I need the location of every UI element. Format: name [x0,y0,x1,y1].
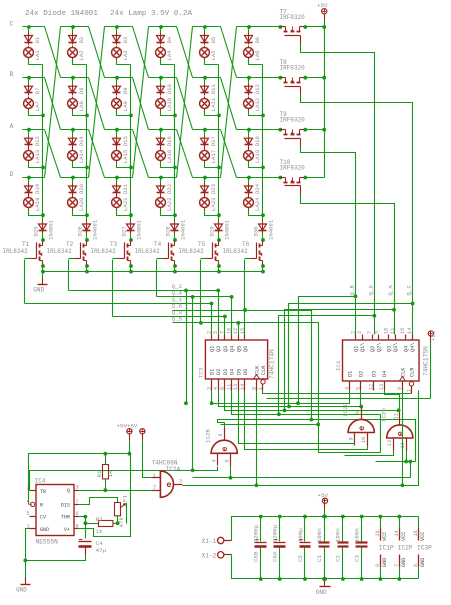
svg-text:24x Lamp 3.5V 0.2A: 24x Lamp 3.5V 0.2A [110,10,192,18]
junction row C col5 [203,25,207,29]
svg-text:C6A: C6A [272,551,279,562]
IC4 NE555N timer [36,485,74,536]
svg-text:D21: D21 [122,183,129,194]
diode D7 [25,86,33,92]
wire row segment D col4 [149,177,177,179]
svg-text:Q4\: Q4\ [410,343,416,352]
svg-text:NE555N: NE555N [36,539,59,546]
wire column 4 vertical [174,65,176,222]
svg-text:8: 8 [76,523,79,529]
diode D13 [25,138,33,144]
svg-text:15: 15 [400,328,406,334]
diode D28 [171,224,179,230]
svg-text:IRL6342: IRL6342 [179,248,205,255]
junction row B col4 [159,76,163,80]
svg-text:LA14: LA14 [78,149,85,163]
wire long diagonal D->C gap3 [133,27,149,178]
svg-text:D8: D8 [78,87,85,94]
svg-text:+5V: +5V [317,2,328,9]
svg-text:LA21: LA21 [122,197,129,211]
junction row C col4 [159,25,163,29]
lamp LA7 [24,99,34,109]
svg-text:IC4: IC4 [35,477,46,484]
svg-text:T1: T1 [22,241,30,248]
IC1 pin D2 (5) [360,381,362,391]
svg-text:IC2B: IC2B [204,429,211,443]
wire row segment C col2 [61,26,89,28]
svg-text:VCC: VCC [420,532,426,541]
lamp LA2 [68,48,78,58]
svg-text:Q2: Q2 [216,346,222,352]
junction column 2 row B [85,114,89,118]
svg-text:C5: C5 [297,555,304,562]
IC3 pin D1 [211,379,213,391]
wire V+ to +5V via bottom [79,454,131,537]
diode D30 [259,224,267,230]
svg-text:e: e [166,480,171,490]
svg-text:LA7: LA7 [34,101,41,111]
IC3 pin CLK (9) [256,379,258,391]
diode D21 [113,186,121,192]
svg-text:D18: D18 [254,136,261,146]
junction row B col5 [203,76,207,80]
svg-text:VCC: VCC [401,532,407,541]
svg-text:IC3: IC3 [198,367,205,378]
wire bus Q_5 [173,322,239,324]
svg-text:IC2A: IC2A [166,466,181,473]
wire column 3 vertical [130,65,132,222]
wire row segment C col6 [237,26,281,28]
wire lamp LA12 to column 6 [249,111,263,116]
transistor T3 (IRL6342 N-MOSFET) [130,241,132,246]
transistor T7 (IRF9320 P-MOSFET) [281,26,286,28]
IC1 pin Q2\ (6) [378,335,380,341]
svg-text:3: 3 [76,485,79,491]
wire bus Q_5 extension to gap vertical [221,323,319,425]
diode D24 [245,186,253,192]
wire diagonal B->A gap4 [177,78,193,130]
junction T4 drain [173,238,177,242]
wire IC2B input5 net line [193,477,411,479]
junction row B col6 [247,76,251,80]
capacitor C1 100n (ceramic) [324,517,326,543]
svg-text:CLR: CLR [410,368,416,377]
power symbol IC3P VCC/GND [418,517,420,529]
wire lamp LA8 to column 2 [73,111,87,116]
wire diagonal A->D gap1 [45,130,61,178]
svg-text:3: 3 [357,331,363,334]
svg-text:IRL6342: IRL6342 [135,248,161,255]
wire bus Q_1 to IC3 pin [211,304,213,335]
svg-text:A: A [10,123,14,130]
wire feedback tap to IC3 D2 (from Q_C) [219,304,413,407]
wire row segment B col5 [193,77,221,79]
wire T2 gate drop to bus Q_2 [68,260,70,291]
junction T3 drain [129,238,133,242]
capacitor C4 47u [79,541,92,543]
wire row segment B col1 [23,77,45,79]
wire D26 to T2 drain [86,234,88,241]
IC3 pin D4 [231,379,233,391]
svg-text:1N4001: 1N4001 [136,219,143,240]
junction T10 source to +5V rail [303,176,307,180]
wire GND stub (cap row) [324,579,326,583]
wire bus Q_3 [113,316,225,318]
junction row D col3 [115,176,119,180]
resistor R1 leads [105,454,107,465]
transistor T1 (IRL6342 N-MOSFET) [42,241,44,246]
wire 555 GND pin to GND [26,529,30,584]
wire D30 to T6 drain [262,234,264,241]
svg-text:D20: D20 [78,183,85,194]
wire T1 source to GND rail [42,267,44,272]
svg-text:LA5: LA5 [210,50,217,60]
IC3 pin Q1 [211,335,213,341]
junction column 3 row B [129,114,133,118]
lamp LA17 [200,151,210,161]
wire 555 V+ rail [29,454,130,505]
junction row C col3 [115,25,119,29]
wire row segment B col4 [149,77,177,79]
IC4 pin Q (3) [75,490,79,492]
wire column 1 vertical [42,65,44,222]
svg-text:100n: 100n [316,528,323,542]
IC1 pin Q1 (2) [355,335,357,341]
wire row segment A col4 [149,129,177,131]
junction T2 source [85,264,89,268]
junction row D col1 [27,176,31,180]
wire lamp LA4 to column 4 [161,60,175,65]
wire T6 source to GND rail [262,267,264,272]
svg-text:LA20: LA20 [78,197,85,211]
svg-text:IRF9320: IRF9320 [280,165,306,172]
wire hook from pin5 line up [410,462,412,478]
diode D26 [83,224,91,230]
svg-text:Q1: Q1 [354,346,360,352]
wire bus Q_2 [69,290,219,292]
resistor R2 1k [99,521,113,527]
svg-text:LA19: LA19 [34,198,41,211]
wire T3 source to GND rail [130,267,132,272]
XOR gate IC2A (74HC86) [160,471,173,497]
junction column 3 row A [129,166,133,170]
wire 555 TR loop [30,471,193,491]
svg-text:LA16: LA16 [166,150,173,163]
junction column 6 row B [261,114,265,118]
svg-text:12: 12 [387,440,393,446]
wire lamp LA17 to column 5 [205,163,219,168]
junction row A col2 [71,128,75,132]
wire diagonal C->B gap5 [221,27,237,78]
svg-text:5: 5 [355,387,361,390]
junction T3 source [129,264,133,268]
wire P1 wiper tie [126,504,127,524]
wire tap to 380.3 vertical [319,425,381,453]
svg-text:1: 1 [153,473,156,479]
svg-text:D3: D3 [372,371,378,377]
IC1 pin Q4 (15) [405,335,407,341]
junction row D col5 [203,176,207,180]
transistor T10 (IRF9320 P-MOSFET) [281,177,286,179]
svg-text:D27: D27 [121,226,128,236]
junction row A col3 [115,128,119,132]
transistor T6 (IRL6342 N-MOSFET) [262,241,264,246]
diode D4 [157,36,165,42]
wire lamp LA22 to column 4 [161,210,175,216]
wire GND rail under T1..T6 [43,271,263,273]
svg-text:1N4001: 1N4001 [92,219,99,240]
junction column 1 row B [41,114,45,118]
svg-text:D2: D2 [78,37,85,44]
junction T9 source to +5V rail [303,128,307,132]
ground GND (driver rail) [42,278,44,285]
svg-text:Q_C: Q_C [406,285,413,296]
lamp LA4 [156,48,166,58]
svg-text:IC2D: IC2D [381,408,388,422]
svg-text:CV: CV [40,515,47,521]
svg-text:Q1\: Q1\ [360,343,366,352]
svg-text:13: 13 [233,384,239,390]
svg-text:6: 6 [218,433,224,436]
junction T4 source [173,264,177,268]
wire feedback tap to IC3 D3 (from Q_A) [225,310,395,411]
svg-text:8: 8 [413,564,419,567]
svg-text:LA22: LA22 [166,198,173,211]
svg-text:1k: 1k [107,470,114,477]
svg-text:D16: D16 [166,136,173,146]
wire diagonal B->A gap5 [221,78,237,130]
svg-text:100n: 100n [354,528,361,542]
wire feedback tap to IC3 D4 (from Q_D) [232,316,375,415]
wire lamp LA16 to column 4 [161,163,175,168]
capacitor C6A 2200µ (electrolytic) [279,517,281,542]
junction T5 source [217,264,221,268]
IC4 pin V+ (8) [75,528,79,530]
svg-text:14: 14 [394,530,400,536]
wire GND rail (cap row bottom) [232,555,419,579]
power symbol IC1P VCC/GND [380,517,382,529]
svg-text:D6: D6 [254,37,261,44]
svg-text:LA23: LA23 [210,198,217,211]
diode D22 [157,186,165,192]
svg-text:LA15: LA15 [122,150,129,163]
junction row D col4 [159,176,163,180]
IC3 pin D5 [238,379,240,391]
diode D15 [113,138,121,144]
wire diagonal C->B gap1 [45,27,61,78]
wire CLR net (+5V) IC3/IC1 [263,391,412,394]
svg-text:GND: GND [382,558,388,567]
svg-text:IRL6342: IRL6342 [3,248,29,255]
svg-text:LA24: LA24 [254,197,261,211]
svg-text:2: 2 [350,331,356,334]
svg-text:R: R [40,502,43,508]
XOR gate IC2B (74HC86) [211,440,237,453]
diode D9 [113,86,121,92]
svg-text:GND: GND [316,589,327,596]
wire +5V rail (right) [324,21,326,178]
wire long diagonal D->C gap2 [89,27,105,178]
junction row C col6 [247,25,251,29]
IC3 pin Q5 [238,335,240,341]
svg-text:D6: D6 [243,369,249,375]
IC4 pin DIS (7) [75,504,79,506]
svg-text:CLK: CLK [255,365,261,375]
wire DIS to P1 top [79,498,118,505]
wire row segment C col5 [193,26,221,28]
wire THR/C4 vertical [85,517,87,539]
wire bus Q_5 to IC3 pin [238,323,240,335]
junction column 6 row A [261,166,265,170]
junction T10 drain [278,176,282,180]
wire THR node [79,516,86,518]
wire diagonal B->A gap2 [89,78,105,130]
svg-text:T6: T6 [242,241,250,248]
svg-text:IRF9320: IRF9320 [280,14,306,21]
wire clock net 555->gates->CLK pins [183,391,419,486]
svg-text:D1: D1 [210,369,216,375]
wire tap line down right [312,420,416,462]
IC4 pin THR (6) [75,516,79,518]
lamp LA9 [112,99,122,109]
wire row segment B col3 [105,77,133,79]
wire row segment A col2 [61,129,89,131]
XOR gate IC2D (74HC86) [387,425,413,438]
svg-text:Q3: Q3 [387,346,393,352]
diode D5 [201,36,209,42]
wire diagonal C->B gap2 [89,27,105,78]
supply +5V (IC1 CLR) symbol [428,331,433,336]
junction T7 source to +5V rail [303,25,307,29]
svg-text:11: 11 [226,384,232,390]
diode D16 [157,138,165,144]
wire lamp LA7 to column 1 [29,111,43,116]
wire row segment D col5 [193,177,221,179]
IC4 pin CV (5) [30,516,37,518]
diode D10 [157,86,165,92]
IC1 pin D1 (4) [349,381,351,391]
diode D14 [69,138,77,144]
wire row segment B col6 [237,77,281,79]
wire column 5 vertical [218,65,220,222]
IC3 pin Q2 [218,335,220,341]
svg-text:C3: C3 [354,555,361,562]
svg-text:D10: D10 [166,83,173,94]
svg-text:D29: D29 [209,226,216,236]
wire T4 source to GND rail [174,267,176,272]
wire diagonal B->A gap1 [45,78,61,130]
supply +5V (cap row) symbol [322,498,327,503]
svg-text:1N4001: 1N4001 [224,219,231,240]
wire T7 gate to Q net [301,44,375,335]
svg-text:100µ: 100µ [297,528,304,542]
svg-text:Q_B: Q_B [349,285,356,296]
svg-text:D11: D11 [210,83,217,94]
svg-text:5: 5 [224,459,230,462]
svg-text:D2: D2 [359,371,365,377]
svg-text:4: 4 [344,387,350,390]
svg-text:Q5: Q5 [236,346,242,352]
junction T2 drain [85,238,89,242]
wire row segment A col5 [193,129,221,131]
IC1 74HC175N quad D-flipflop [343,340,420,381]
wire +5V2 to IC2A input 1 [143,441,152,478]
svg-text:T3: T3 [110,241,118,248]
lamp LA24 [244,198,254,208]
svg-text:D1: D1 [34,36,41,43]
wire lamp LA5 to column 5 [205,60,219,65]
svg-text:9: 9 [397,387,403,390]
svg-text:6: 6 [374,331,380,334]
IC1 pin CLK (9) [402,381,404,391]
svg-text:Q_6: Q_6 [172,303,183,310]
lamp LA21 [112,198,122,208]
svg-text:74HC174N: 74HC174N [269,349,276,379]
wire diagonal C->B gap3 [133,27,149,78]
svg-text:GND: GND [16,587,27,594]
svg-text:D2: D2 [216,369,222,375]
IC4 pin TR (2) [30,490,37,492]
junction row B col2 [71,76,75,80]
svg-text:Q2\: Q2\ [377,343,383,352]
junction T5 drain [217,238,221,242]
wire to IC2D input 13 [376,461,416,463]
lamp LA8 [68,99,78,109]
svg-text:IRL6342: IRL6342 [47,248,73,255]
svg-text:V+: V+ [64,527,70,533]
svg-text:8: 8 [355,411,361,414]
svg-text:T4: T4 [154,241,162,248]
junction column 3 row D [129,213,133,217]
wire diagonal A->D gap3 [133,130,149,178]
wire diagonal B->A gap3 [133,78,149,130]
svg-text:IC3P: IC3P [417,545,432,552]
svg-text:DIS: DIS [61,502,70,508]
junction column 6 row D [261,213,265,217]
junction row A col5 [203,128,207,132]
wire IC2C output (8) to IC1 D2 [361,391,362,407]
wire diagonal A->D gap4 [177,130,193,178]
svg-text:Q_4: Q_4 [172,290,183,297]
svg-text:2: 2 [206,331,212,334]
svg-text:5: 5 [213,331,219,334]
wire row segment C col1 [23,26,45,28]
lamp LA22 [156,198,166,208]
transistor T9 (IRF9320 P-MOSFET) [281,129,286,131]
wire lamp LA14 to column 2 [73,163,87,168]
wire bus Q_6 to IC3 pin [244,311,246,335]
svg-text:1k: 1k [96,528,103,535]
wire bus Q_2 to IC3 pin [218,291,220,335]
svg-text:16: 16 [413,530,419,536]
svg-text:LA3: LA3 [122,50,129,60]
diode D2 [69,36,77,42]
svg-text:LA6: LA6 [254,50,261,60]
svg-text:LA4: LA4 [166,50,173,61]
wire D28 to T4 drain [174,234,176,241]
junction T8 source to +5V rail [303,76,307,80]
svg-text:LA17: LA17 [210,150,217,163]
svg-text:3: 3 [179,478,182,484]
svg-text:11: 11 [393,413,399,419]
svg-text:D12: D12 [254,84,261,94]
wire row segment A col1 [23,129,45,131]
svg-text:D3: D3 [122,37,129,44]
svg-text:LA8: LA8 [78,101,85,111]
diode D25 [39,224,47,230]
svg-text:16: 16 [375,530,381,536]
wire C4 to GND [26,555,86,561]
